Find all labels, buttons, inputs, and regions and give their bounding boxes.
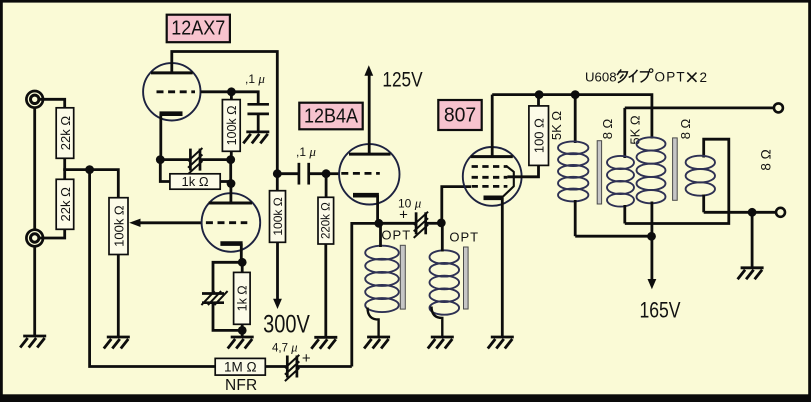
svg-text:220k Ω: 220k Ω <box>320 202 332 239</box>
wire input jack J2 to R2 <box>38 229 65 238</box>
V3 plate lead <box>491 95 494 157</box>
wire <box>324 244 327 336</box>
OPT2 secondary winding <box>686 156 715 196</box>
V2 cathode lead <box>376 195 379 223</box>
triode V1b (12AX7 lower half) <box>202 193 261 252</box>
wire <box>651 202 654 237</box>
node V1a grid <box>227 87 236 96</box>
node NFB return junction <box>85 165 94 174</box>
wire B+ rail <box>492 95 652 139</box>
wire OPT primaries common <box>575 235 651 238</box>
wire <box>220 180 231 183</box>
svg-text:125V: 125V <box>382 69 422 92</box>
svg-text:1k Ω: 1k Ω <box>235 285 249 311</box>
wire <box>257 114 260 131</box>
wire <box>213 303 242 331</box>
triode V1a (12AX7 upper half) <box>143 63 200 120</box>
node <box>238 326 247 335</box>
svg-text:100k Ω: 100k Ω <box>112 205 127 247</box>
V3 grid g2 (dashed) <box>472 176 508 179</box>
wire secondary series link <box>625 139 729 223</box>
V1a grid (dashed) <box>157 90 196 93</box>
svg-text:,1 μ: ,1 μ <box>296 144 316 159</box>
ground (grid decoupling cap) <box>243 132 269 144</box>
wire 807 grid lead <box>442 187 471 223</box>
svg-text:807: 807 <box>444 104 476 126</box>
wire <box>752 211 776 214</box>
wire secondary to terminal <box>625 107 774 110</box>
svg-text:2: 2 <box>700 70 708 85</box>
label U608 type OPT x2 <box>585 69 707 85</box>
ground (220kΩ) <box>311 337 337 349</box>
svg-text:22k Ω: 22k Ω <box>58 187 73 222</box>
ground (V1b cathode) <box>228 337 254 349</box>
V3 cathode lead <box>501 198 504 336</box>
svg-text:NFR: NFR <box>225 377 257 394</box>
svg-text:+: + <box>399 207 408 224</box>
volume pot 100kΩ <box>109 198 128 255</box>
resistor 100Ω (screen) <box>529 106 549 165</box>
svg-text:165V: 165V <box>639 299 681 323</box>
wire <box>574 200 577 236</box>
svg-text:1k Ω: 1k Ω <box>182 174 209 189</box>
wire <box>265 365 287 368</box>
wire <box>426 222 442 225</box>
wire NFB tap <box>352 223 379 366</box>
svg-text:100k Ω: 100k Ω <box>271 197 285 235</box>
wire V1a grid <box>201 90 232 93</box>
svg-text:U608: U608 <box>585 70 617 85</box>
OPT2 core <box>673 138 678 200</box>
input jack J1 <box>26 91 43 108</box>
wire <box>229 160 232 184</box>
node V1a plate / plate load <box>273 169 282 178</box>
svg-text:12B4A: 12B4A <box>304 105 358 127</box>
resistor 1kΩ (V1b cathode) <box>234 272 251 324</box>
svg-text:22k Ω: 22k Ω <box>58 116 73 151</box>
ground (speaker common) <box>738 268 764 280</box>
node V1a cathode <box>156 155 165 164</box>
wire input jack J1 to R1 <box>38 99 65 108</box>
wire <box>309 172 326 175</box>
svg-text:,1 μ: ,1 μ <box>245 71 265 86</box>
capacitor electrolytic (SRPP bypass) <box>188 148 202 174</box>
resistor 22kΩ (upper mixing) <box>56 108 73 159</box>
wire <box>241 330 244 336</box>
svg-text:12AX7: 12AX7 <box>171 18 225 40</box>
300V arrow <box>273 299 282 309</box>
OPT1 core <box>400 245 405 309</box>
capacitor ,1μ (coupling) <box>299 163 309 185</box>
V3 grid g3 (dashed) <box>472 165 508 168</box>
V3 cathode <box>484 196 504 201</box>
V2 grid (dashed) <box>341 172 380 175</box>
wire pot wiper to V1b grid <box>134 221 202 224</box>
V1a plate lead to coupling node <box>172 52 277 174</box>
wire pot bottom <box>117 255 120 337</box>
triode V2 (12B4A) <box>339 144 399 204</box>
wire <box>379 222 416 225</box>
svg-text:OPT: OPT <box>381 228 411 243</box>
wire jack ground bus <box>33 107 36 229</box>
wire <box>537 95 540 106</box>
wire <box>241 324 244 330</box>
ground (input jacks) <box>20 336 46 348</box>
wire screen to 100Ω <box>507 165 538 176</box>
svg-text:1M Ω: 1M Ω <box>224 359 257 374</box>
svg-text:+: + <box>302 350 311 367</box>
V1b cathode <box>220 241 242 246</box>
beam tetrode V3 (807) <box>463 147 522 206</box>
svg-text:300V: 300V <box>263 310 310 338</box>
wire <box>63 168 66 179</box>
wire <box>326 172 339 175</box>
V3 plate <box>471 155 513 158</box>
wire <box>574 95 577 143</box>
wire <box>160 158 190 161</box>
output terminal (common) <box>776 208 785 217</box>
wire <box>63 158 66 171</box>
V1a cathode lead <box>159 114 162 160</box>
resistor 1kΩ (SRPP) <box>170 174 220 189</box>
wire NFB return <box>90 170 216 367</box>
node <box>571 90 580 99</box>
wire <box>704 211 752 214</box>
OPT2 core <box>464 247 469 309</box>
ground (807 cathode) <box>488 337 514 349</box>
svg-text:100 Ω: 100 Ω <box>532 118 547 153</box>
ground (OPT1) <box>364 337 390 349</box>
node V2 cathode <box>374 219 383 228</box>
wire <box>751 212 754 267</box>
165V arrow <box>648 279 657 289</box>
wire <box>702 195 705 213</box>
wiper arrowhead <box>129 219 140 227</box>
svg-text:4,7 μ: 4,7 μ <box>272 341 297 355</box>
wire mixing junction to volume pot <box>63 170 118 198</box>
input jack J2 <box>26 230 43 247</box>
label box 807 <box>438 100 481 130</box>
capacitor electrolytic 10μ (interstage) <box>414 212 428 238</box>
wire <box>297 365 352 368</box>
wire <box>230 92 233 100</box>
node <box>226 155 235 164</box>
svg-text:OPT: OPT <box>655 70 686 85</box>
label box 12B4A <box>299 103 362 130</box>
svg-text:5K Ω: 5K Ω <box>549 111 564 141</box>
wire <box>623 205 626 224</box>
resistor 22kΩ (lower mixing) <box>56 179 73 229</box>
svg-text:OPT: OPT <box>449 230 479 245</box>
wire <box>200 158 231 161</box>
OPT1 core <box>597 141 601 204</box>
choke OPT2 winding <box>430 250 460 314</box>
capacitor electrolytic 4,7μ (NFB) <box>285 355 299 381</box>
wire to 165V <box>651 236 654 283</box>
wire <box>368 308 379 337</box>
node 807 grid / OPT2 <box>437 219 446 228</box>
V2 plate lead to 125V <box>368 73 371 154</box>
resistor 1MΩ NFR <box>215 358 265 375</box>
V1a plate <box>151 71 193 74</box>
V3 beam plate tie <box>503 166 514 197</box>
label box 12AX7 <box>167 15 230 43</box>
wire <box>276 174 279 191</box>
wire <box>441 223 444 252</box>
resistor 100kΩ (V1a grid) <box>222 100 240 152</box>
wire <box>623 108 626 158</box>
wire grid decoupling branch <box>231 92 258 105</box>
svg-text:8 Ω: 8 Ω <box>759 149 774 170</box>
V1b cathode lead <box>240 244 243 263</box>
V1b plate <box>209 202 252 205</box>
ground (volume pot) <box>104 337 130 349</box>
V1b grid (dashed) <box>206 221 247 224</box>
wire <box>432 307 443 337</box>
wire cathode bypass branch <box>213 262 242 293</box>
wire <box>379 223 382 247</box>
svg-text:100k Ω: 100k Ω <box>225 105 239 145</box>
OPT1 primary winding <box>558 141 588 201</box>
capacitor ,1μ (grid decoupling) <box>247 104 269 114</box>
V2 plate <box>349 153 391 156</box>
capacitor electrolytic (V1b cathode bypass) <box>201 291 227 305</box>
wire <box>277 172 299 175</box>
wire <box>241 262 244 272</box>
node <box>647 232 656 241</box>
resistor 100kΩ (plate load) <box>270 191 286 243</box>
V2 cathode <box>353 193 379 198</box>
OPT1 secondary winding <box>607 156 634 207</box>
node V1b cathode <box>238 258 247 267</box>
V3 grid g1 (dashed) <box>472 185 508 188</box>
resistor 220kΩ (grid leak) <box>318 197 334 244</box>
125V arrow <box>364 65 373 76</box>
output terminal (hot) <box>774 103 783 112</box>
svg-text:8 Ω: 8 Ω <box>600 118 615 139</box>
svg-text:8 Ω: 8 Ω <box>678 118 693 139</box>
choke OPT1 winding <box>365 246 399 312</box>
V1a cathode <box>160 111 183 116</box>
node V1b plate / V1a cathode network <box>227 179 236 188</box>
node <box>535 90 544 99</box>
wire <box>325 174 328 198</box>
V1b plate lead <box>229 184 232 204</box>
ground (OPT2) <box>428 337 454 349</box>
wire <box>160 160 170 182</box>
OPT2 primary winding <box>637 137 666 203</box>
wire jack ground lead <box>33 246 36 336</box>
wire to 300V <box>276 242 279 300</box>
wire <box>230 151 233 160</box>
node 12B4A grid <box>322 169 331 178</box>
node speaker common <box>748 208 757 217</box>
